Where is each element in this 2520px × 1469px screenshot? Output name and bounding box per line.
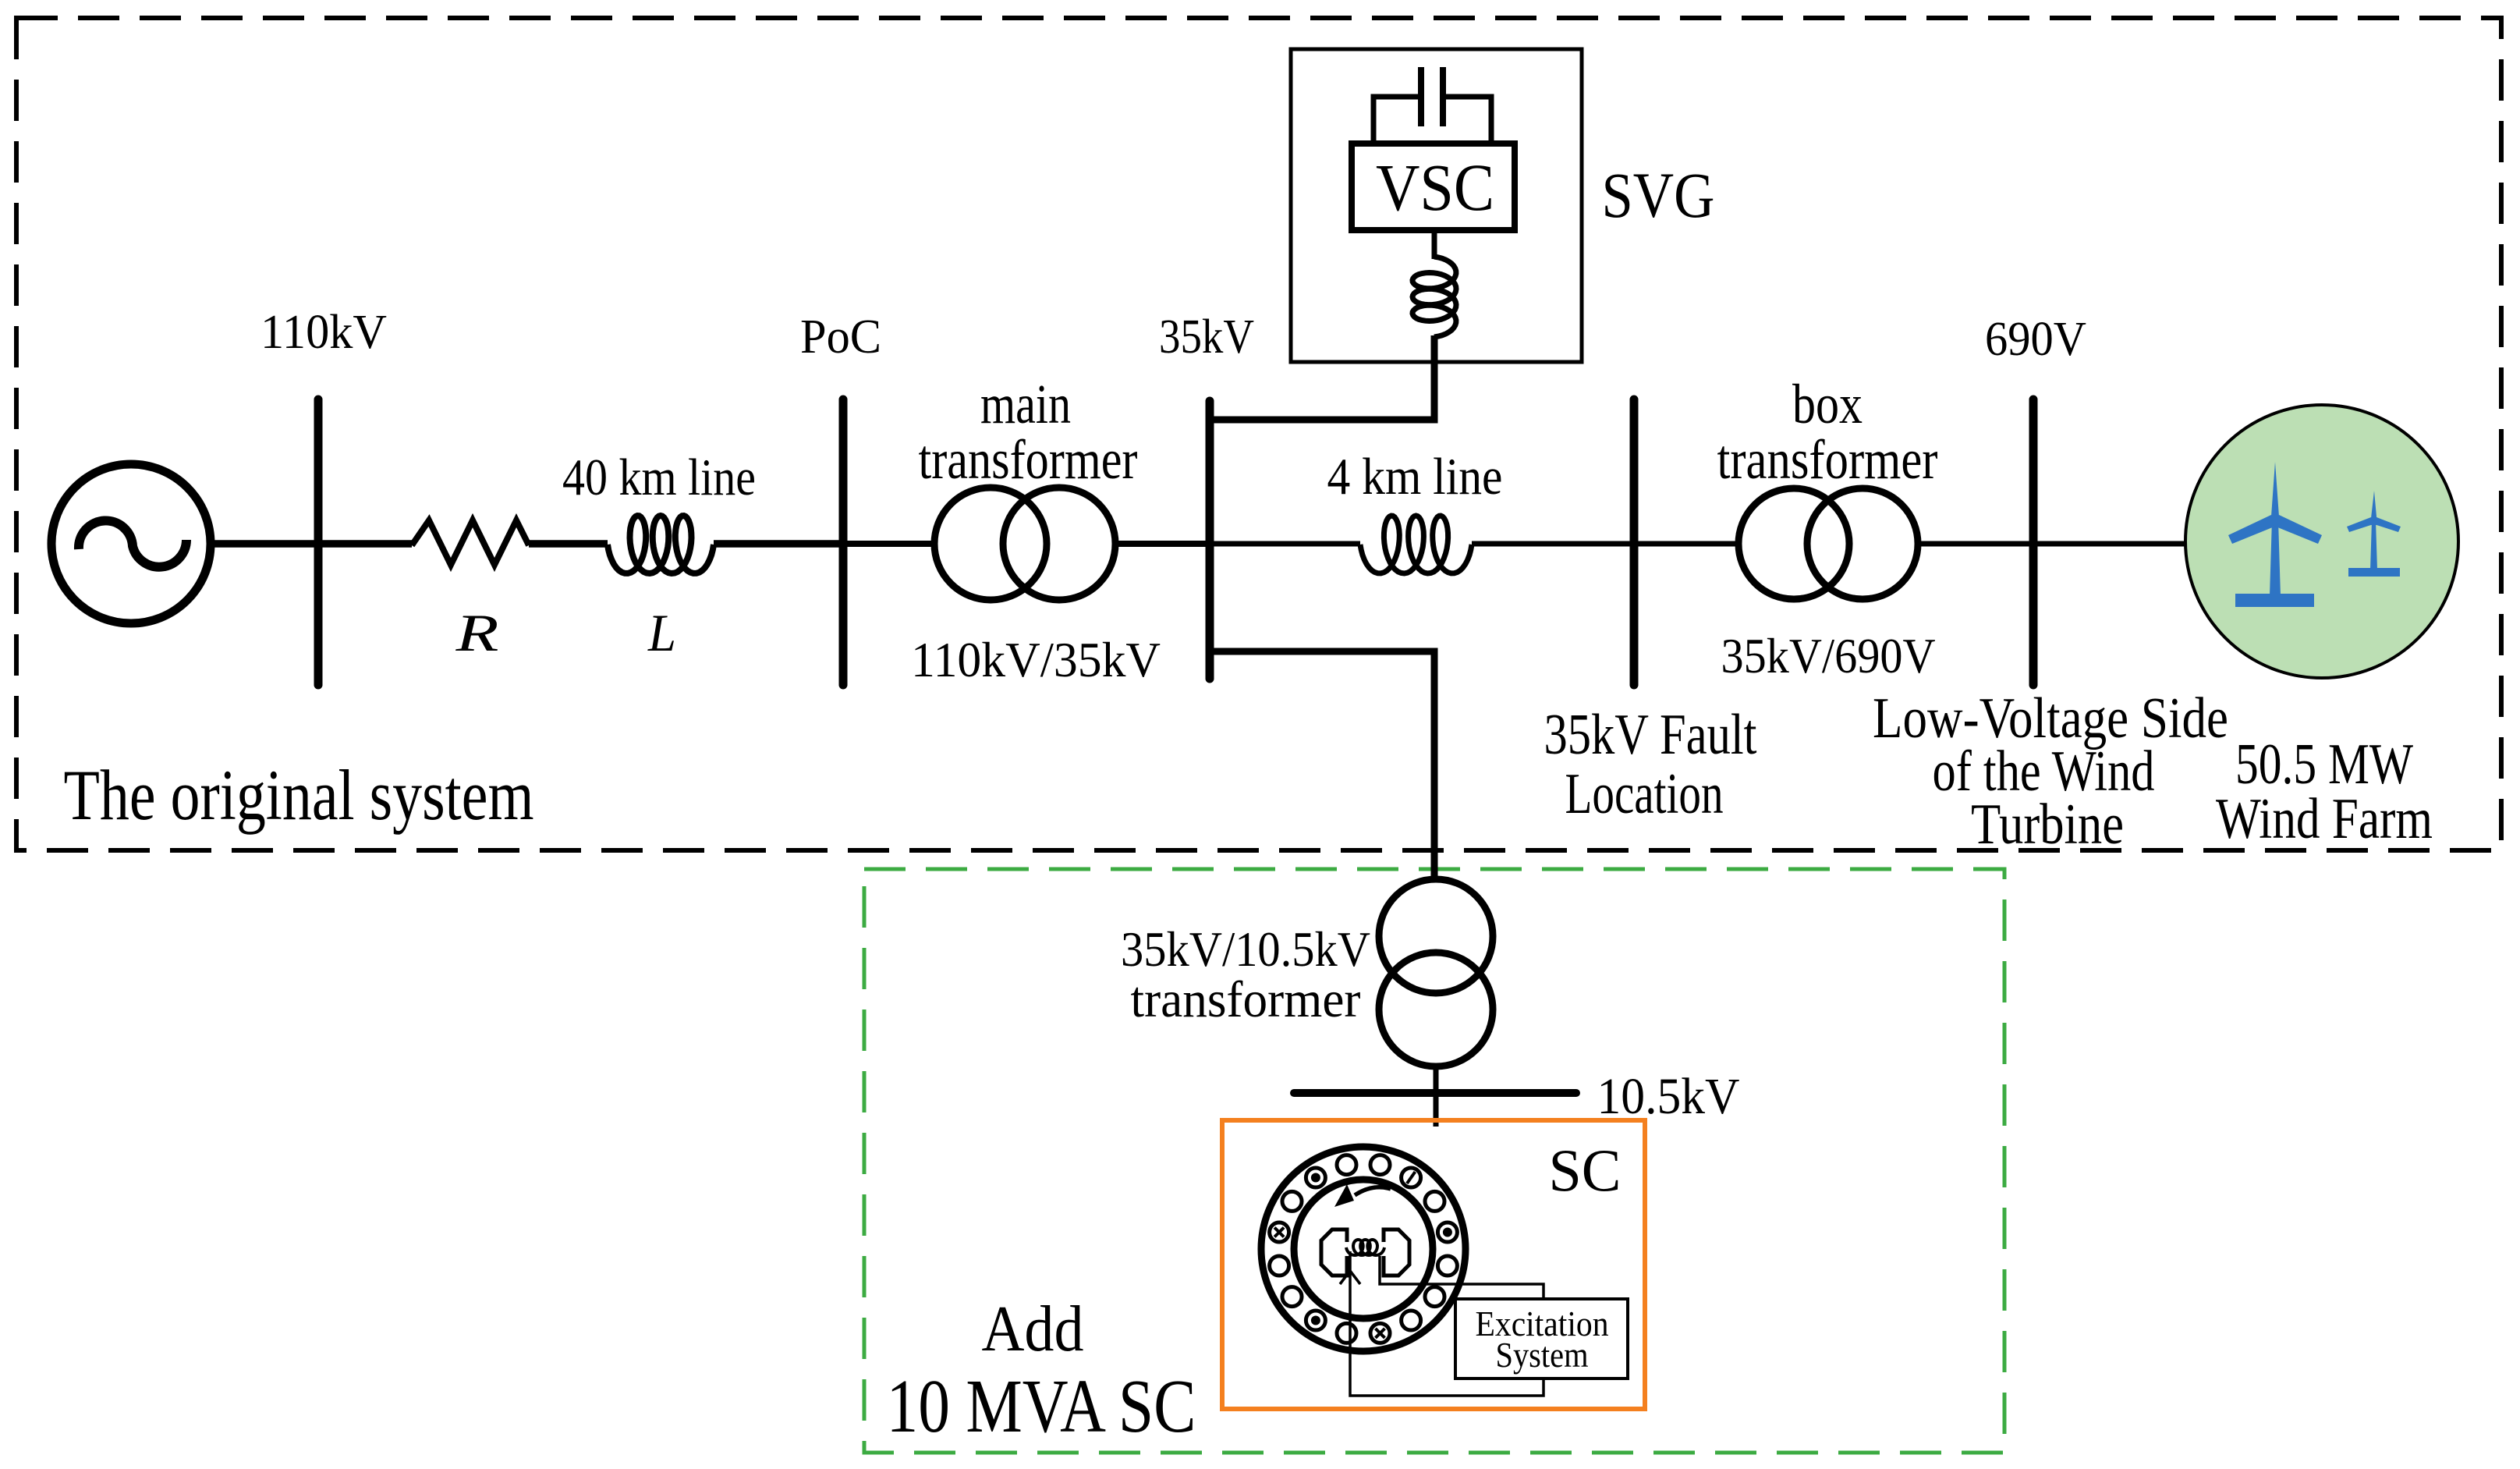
svg-text:35kV Fault: 35kV Fault — [1544, 703, 1757, 767]
capacitor plates — [1418, 67, 1424, 126]
svg-text:main: main — [980, 373, 1071, 435]
synchronous condenser stator outer — [1261, 1147, 1466, 1351]
busbar 35kV — [1206, 401, 1214, 679]
svg-text:690V: 690V — [1985, 313, 2086, 366]
svg-text:box: box — [1792, 373, 1863, 435]
capacitor leads — [1373, 97, 1491, 145]
SVG coupling inductor — [1412, 257, 1456, 337]
svg-text:110kV/35kV: 110kV/35kV — [911, 632, 1161, 687]
busbar PoC — [839, 399, 848, 685]
busbar 35kV fault location — [1630, 399, 1639, 685]
svg-text:Turbine: Turbine — [1971, 793, 2124, 857]
busbar 10.5kV — [1294, 1089, 1576, 1097]
svg-text:110kV: 110kV — [261, 306, 387, 359]
4 km line inductor — [1360, 516, 1472, 573]
resistor R — [412, 520, 529, 565]
box transformer T2 — [1738, 488, 1849, 599]
wire: 35kV bus to SC transformer — [1210, 651, 1434, 881]
svg-text:Wind Farm: Wind Farm — [2216, 787, 2433, 851]
svg-text:Location: Location — [1565, 762, 1724, 826]
wire: inductor L to main transformer — [714, 540, 843, 548]
rotor field winding — [1346, 1240, 1384, 1255]
dashed boundary: add 10 MVA SC (green) — [864, 869, 2004, 1453]
svg-text:transformer: transformer — [1131, 971, 1361, 1028]
wire: main transformer to 4 km line — [1115, 541, 1210, 547]
wind turbine large — [2228, 462, 2322, 607]
wire: resistor to inductor — [529, 540, 608, 548]
busbar 690V — [2029, 399, 2038, 685]
wire: VSC to coil — [1432, 230, 1437, 259]
svg-text:35kV/10.5kV: 35kV/10.5kV — [1121, 921, 1370, 977]
svg-text:10.5kV: 10.5kV — [1597, 1068, 1740, 1125]
field wire with arrow — [1350, 1251, 1544, 1396]
svg-text:PoC: PoC — [800, 310, 881, 364]
VSC box — [1352, 144, 1515, 230]
svg-text:SC: SC — [1549, 1137, 1622, 1204]
svg-text:35kV/690V: 35kV/690V — [1721, 628, 1936, 683]
svg-text:Add: Add — [982, 1293, 1084, 1365]
rotor boundary — [1294, 1180, 1433, 1318]
wind farm circle — [2185, 405, 2458, 678]
field wire to excitation — [1380, 1256, 1544, 1299]
svg-text:35kV: 35kV — [1159, 310, 1254, 364]
svg-text:System: System — [1496, 1335, 1589, 1375]
SVG enclosure box — [1291, 49, 1582, 362]
wire: 4 km line to box transformer — [1472, 541, 1738, 547]
svg-text:SVG: SVG — [1602, 159, 1715, 231]
wire: SVG to 35kV bus — [1210, 335, 1434, 420]
wire: transformer to 10.5kV bus — [1434, 1066, 1439, 1127]
stator slot conductors — [1270, 1222, 1289, 1242]
svg-text:4 km line: 4 km line — [1327, 448, 1503, 506]
svg-text:R: R — [455, 603, 498, 662]
dashed boundary: the original system — [16, 18, 2501, 850]
excitation system box — [1455, 1299, 1628, 1379]
svg-text:10 MVA SC: 10 MVA SC — [887, 1364, 1196, 1448]
SC enclosure (orange) — [1222, 1120, 1645, 1409]
inductor L (40 km line) — [608, 516, 714, 573]
wind turbine small — [2347, 491, 2401, 577]
svg-text:VSC: VSC — [1376, 150, 1494, 225]
wire: source to 110kV bus — [211, 540, 412, 548]
busbar 110kV — [314, 399, 323, 685]
ac source G — [51, 464, 211, 623]
svg-text:transformer: transformer — [919, 428, 1138, 491]
rotation arrow — [1355, 1187, 1391, 1195]
rotor pole shoe left — [1321, 1229, 1347, 1276]
main transformer T1 — [934, 488, 1047, 600]
svg-text:transformer: transformer — [1717, 428, 1938, 491]
rotor pole shoe right — [1384, 1229, 1409, 1276]
svg-text:The original system: The original system — [64, 755, 534, 835]
ac source sine — [79, 520, 186, 566]
svg-text:L: L — [647, 603, 676, 662]
SC step-down transformer 35kV/10.5kV — [1379, 879, 1493, 993]
wire: box transformer to wind farm — [1918, 541, 2186, 547]
svg-text:40 km line: 40 km line — [562, 449, 756, 506]
